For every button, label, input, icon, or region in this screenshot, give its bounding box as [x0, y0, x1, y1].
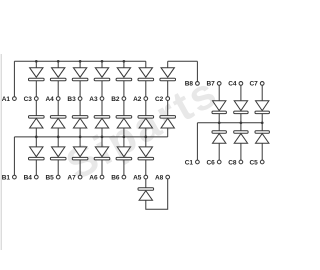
wire diode cathode to node B3	[79, 81, 81, 97]
svg-text:B8: B8	[185, 81, 194, 88]
wire diode cathode to node A4	[57, 81, 59, 97]
junction middle rail col A6	[101, 136, 104, 139]
diode D3-B6 (third row, cathode to B6)	[116, 147, 132, 160]
svg-text:C6: C6	[206, 159, 215, 166]
wire top rail to diode anode (A3 column)	[101, 61, 103, 67]
diode D2-A3 (second row, cathode up to A3)	[94, 116, 110, 128]
wire diode cathode to node A5	[145, 160, 147, 175]
diode D1-B3 (top row, cathode to B3)	[72, 68, 88, 81]
diode D2-A4 (second row, cathode up to A4)	[50, 116, 66, 128]
svg-text:A4: A4	[45, 96, 54, 103]
svg-text:C4: C4	[228, 81, 237, 88]
wire top rail to diode anode (B3 column)	[79, 61, 81, 67]
diode D2-A2 (second row, cathode up to A2)	[138, 116, 154, 128]
node A7	[67, 174, 82, 181]
wire top rail to diode anode (C3 column)	[35, 61, 37, 67]
svg-text:A8: A8	[155, 174, 164, 181]
diode D3-B5 (third row, cathode to B5)	[50, 147, 66, 160]
svg-text:B3: B3	[67, 96, 76, 103]
wire row2 diode anode to middle rail (A3 column)	[101, 128, 103, 137]
wire middle rail to diode anode (A6 column)	[101, 137, 103, 147]
svg-text:C7: C7	[249, 81, 258, 88]
svg-text:C3: C3	[24, 96, 33, 103]
wire node A2 to diode cathode (row2)	[145, 100, 147, 115]
wire right rail to diode cathode (C6 column)	[218, 123, 220, 131]
svg-text:A3: A3	[89, 96, 98, 103]
wire node A4 to diode cathode (row2)	[57, 100, 59, 115]
wire row2 diode anode to middle rail (A4 column)	[57, 128, 59, 137]
junction middle rail col B5	[57, 136, 60, 139]
wire diode cathode to node A3	[101, 81, 103, 97]
node C5	[249, 159, 264, 166]
node C6	[206, 159, 221, 166]
wire diode cathode to node A6	[101, 160, 103, 175]
wire node B7 to diode anode (right row A)	[218, 85, 220, 101]
node C7	[249, 81, 264, 88]
wire node C3 to diode cathode (row2)	[35, 100, 37, 115]
wire top anode rail A1-A2	[14, 60, 145, 62]
svg-text:B5: B5	[45, 174, 54, 181]
wire right rail to diode cathode (C5 column)	[261, 123, 263, 131]
junction middle rail col B4	[35, 136, 38, 139]
wire top rail to diode anode (A2 column)	[145, 61, 147, 67]
node B7	[206, 81, 221, 88]
svg-text:B1: B1	[2, 174, 11, 181]
diode D5-C4 (right group upper, anode to C4)	[234, 101, 248, 114]
diode D2-B3 (second row, cathode up to B3)	[72, 116, 88, 128]
wire node C4 to diode anode (right row A)	[240, 85, 242, 101]
diode D6-C6 (right group lower, cathode up to rail)	[212, 131, 226, 143]
wire node C7 to diode anode (right row A)	[261, 85, 263, 101]
wire top rail to diode anode (B2 column)	[123, 61, 125, 67]
wire diode cathode to node A2	[145, 81, 147, 97]
diode D3-A5 (third row, cathode to A5)	[138, 147, 154, 160]
wire middle anode rail B1-C2	[14, 136, 167, 138]
svg-text:A6: A6	[89, 174, 98, 181]
junction right rail col C5	[261, 121, 264, 124]
node C3	[24, 96, 39, 103]
diode D5-C7 (right group upper, anode to C7)	[255, 101, 269, 114]
wire diode cathode to node A7	[79, 160, 81, 175]
node C4	[228, 81, 243, 88]
junction right rail col C8	[240, 121, 243, 124]
wire middle rail to diode anode (B4 column)	[35, 137, 37, 147]
wire node A5 to diode cathode (bottom extra diode)	[145, 179, 147, 188]
wire right rail to diode cathode (C8 column)	[240, 123, 242, 131]
junction top rail col C3	[35, 60, 38, 63]
node A4	[45, 96, 60, 103]
junction top rail col B3	[79, 60, 82, 63]
diode D3-A6 (third row, cathode to A6)	[94, 147, 110, 160]
node B6	[111, 174, 126, 181]
wire diode cathode to right cathode rail (B7 column)	[218, 114, 220, 123]
junction top rail col B2	[123, 60, 126, 63]
wire diode cathode to node B2	[123, 81, 125, 97]
node C1	[185, 159, 200, 166]
svg-text:C1: C1	[185, 159, 194, 166]
wire diode cathode to node C2	[167, 81, 169, 97]
wire bottom diode anode loop to A8	[146, 179, 168, 209]
diode D5-B7 (right group upper, anode to B7)	[212, 101, 226, 114]
wire B8 terminal to C2-B8 segment	[196, 61, 198, 81]
wire row2 diode anode to middle rail (A2 column)	[145, 128, 147, 137]
node B8	[185, 81, 200, 88]
svg-text:B2: B2	[111, 96, 120, 103]
wire diode cathode to node B6	[123, 160, 125, 175]
junction middle rail col A7	[79, 136, 82, 139]
node C2	[155, 96, 170, 103]
wire diode cathode to node B5	[57, 160, 59, 175]
svg-text:B4: B4	[24, 174, 33, 181]
page edge artifact line	[0, 54, 2, 250]
diode D1-C3 (top row, cathode to C3)	[29, 68, 45, 81]
node A8	[155, 174, 170, 181]
diode D2-B2 (second row, cathode up to B2)	[116, 116, 132, 128]
diode D3-A7 (third row, cathode to A7)	[72, 147, 88, 160]
node B1	[2, 174, 17, 181]
svg-text:B7: B7	[206, 81, 215, 88]
diode D1-A3 (top row, cathode to A3)	[94, 68, 110, 81]
wire diode anode to node C8	[240, 143, 242, 160]
diode D1-A4 (top row, cathode to A4)	[50, 68, 66, 81]
wire row2 diode anode to middle rail (C2 column)	[167, 128, 169, 137]
node A3	[89, 96, 104, 103]
svg-text:C8: C8	[228, 159, 237, 166]
wire diode anode to node C6	[218, 143, 220, 160]
node A6	[89, 174, 104, 181]
diode D1-C2 (top row, cathode to C2)	[160, 68, 176, 81]
wire top rail to diode anode (C2 column)	[167, 61, 169, 67]
junction right rail col C6	[218, 121, 221, 124]
junction top rail col A3	[101, 60, 104, 63]
wire B1 terminal to middle rail	[13, 137, 15, 175]
svg-text:B6: B6	[111, 174, 120, 181]
wire node B3 to diode cathode (row2)	[79, 100, 81, 115]
diode D4-A5A8 (cathode to A5, anode to A8)	[138, 188, 154, 200]
wire row2 diode anode to middle rail (B3 column)	[79, 128, 81, 137]
node A1	[2, 96, 17, 103]
wire node A3 to diode cathode (row2)	[101, 100, 103, 115]
diode D1-A2 (top row, cathode to A2)	[138, 68, 154, 81]
wire node C2 to diode cathode (row2)	[167, 100, 169, 115]
node B4	[24, 174, 39, 181]
svg-text:A7: A7	[67, 174, 76, 181]
wire diode cathode to right cathode rail (C7 column)	[261, 114, 263, 123]
wire diode anode to node C5	[261, 143, 263, 160]
wire C1 terminal to right rail	[196, 123, 198, 160]
svg-text:C5: C5	[249, 159, 258, 166]
wire top rail to diode anode (A4 column)	[57, 61, 59, 67]
svg-text:A1: A1	[2, 96, 11, 103]
wire diode cathode to right cathode rail (C4 column)	[240, 114, 242, 123]
wire middle rail to diode anode (A7 column)	[79, 137, 81, 147]
svg-text:A5: A5	[133, 174, 142, 181]
wire row2 diode anode to middle rail (B2 column)	[123, 128, 125, 137]
diode D2-C3 (second row, cathode up to C3)	[29, 116, 45, 128]
diode D2-C2 (second row, cathode up to C2)	[160, 116, 176, 128]
wire node B2 to diode cathode (row2)	[123, 100, 125, 115]
wire middle rail to diode anode (A5 column)	[145, 137, 147, 147]
node A5	[133, 174, 148, 181]
diode D3-B4 (third row, cathode to B4)	[29, 147, 45, 160]
svg-text:C2: C2	[155, 96, 164, 103]
node B2	[111, 96, 126, 103]
wire diode cathode to node B4	[35, 160, 37, 175]
junction middle rail col A5	[144, 136, 147, 139]
diode D6-C5 (right group lower, cathode up to rail)	[255, 131, 269, 143]
junction top rail col A4	[57, 60, 60, 63]
wire middle rail to diode anode (B5 column)	[57, 137, 59, 147]
diode D1-B2 (top row, cathode to B2)	[116, 68, 132, 81]
svg-text:A2: A2	[133, 96, 142, 103]
junction middle rail col B6	[123, 136, 126, 139]
diode D6-C8 (right group lower, cathode up to rail)	[234, 131, 248, 143]
node B3	[67, 96, 82, 103]
wire row2 diode anode to middle rail (C3 column)	[35, 128, 37, 137]
node A2	[133, 96, 148, 103]
node B5	[45, 174, 60, 181]
wire right cathode rail C1	[197, 122, 262, 124]
wire middle rail to diode anode (B6 column)	[123, 137, 125, 147]
wire A1 terminal to top rail	[13, 61, 15, 96]
wire C2 top to B8 segment	[168, 60, 198, 62]
node C8	[228, 159, 243, 166]
wire diode cathode to node C3	[35, 81, 37, 97]
